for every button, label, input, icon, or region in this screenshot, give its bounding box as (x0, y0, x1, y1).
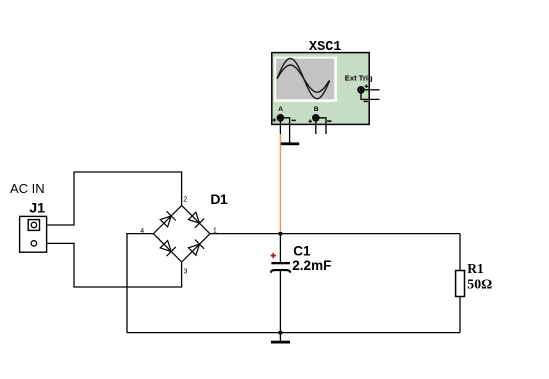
svg-text:D1: D1 (210, 191, 228, 207)
svg-text:4: 4 (140, 228, 144, 235)
svg-text:B: B (314, 106, 319, 113)
svg-text:C1: C1 (293, 243, 311, 258)
svg-text:R1: R1 (467, 261, 483, 276)
svg-text:3: 3 (184, 268, 188, 275)
svg-text:50Ω: 50Ω (467, 277, 492, 292)
svg-text:AC IN: AC IN (10, 181, 45, 196)
svg-text:1: 1 (213, 227, 217, 234)
svg-text:A: A (278, 106, 283, 113)
svg-text:XSC1: XSC1 (309, 40, 341, 55)
svg-text:Ext Trig: Ext Trig (345, 74, 373, 83)
svg-text:2.2mF: 2.2mF (292, 258, 331, 273)
svg-text:J1: J1 (29, 201, 45, 217)
svg-text:2: 2 (183, 196, 187, 203)
